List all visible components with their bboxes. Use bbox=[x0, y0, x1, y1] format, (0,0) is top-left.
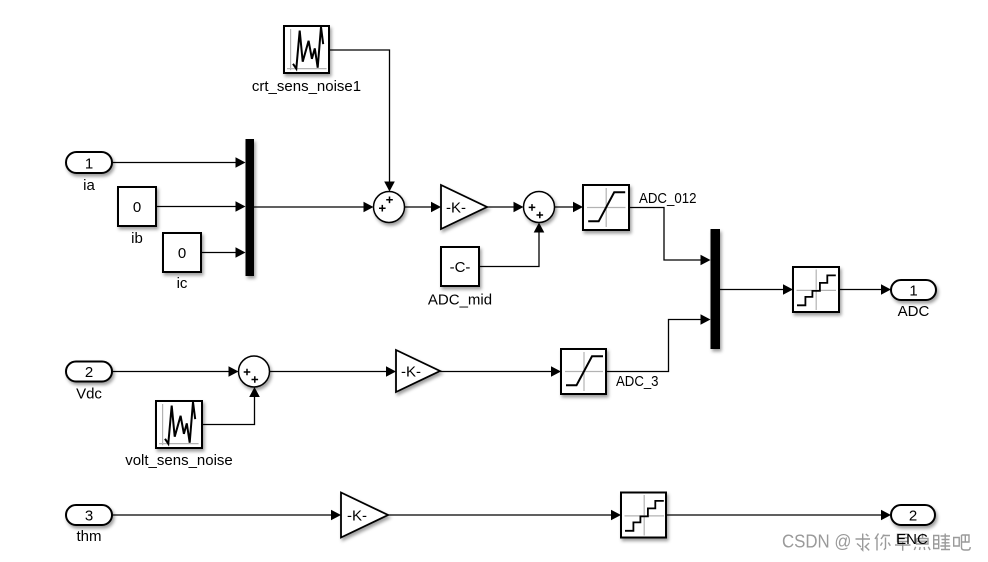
svg-text:-C-: -C- bbox=[450, 259, 471, 276]
svg-text:ADC_mid: ADC_mid bbox=[428, 292, 492, 309]
wire sum S1 to gain G1 bbox=[405, 202, 442, 213]
svg-text:ia: ia bbox=[83, 177, 95, 194]
watermark glyph qiu bbox=[856, 534, 871, 551]
svg-text:ib: ib bbox=[131, 230, 143, 247]
quantizer Q2 bbox=[621, 493, 666, 538]
svg-text:Vdc: Vdc bbox=[76, 386, 102, 403]
wire sum S2 to saturation ADC_012 bbox=[555, 202, 584, 213]
inport 2 (Vdc) bbox=[66, 362, 112, 403]
watermark glyph shui bbox=[934, 534, 951, 550]
svg-text:0: 0 bbox=[178, 245, 186, 262]
outport ENC label bbox=[896, 531, 928, 548]
sum S2 bbox=[524, 192, 555, 223]
svg-text:CSDN @: CSDN @ bbox=[782, 532, 852, 552]
wire gain G2 to saturation ADC_3 bbox=[440, 366, 561, 377]
saturation ADC_012 bbox=[583, 185, 697, 230]
wire crt_sens_noise1 to sum S1 bbox=[329, 50, 395, 192]
wire ADC_mid to sum S2 bbox=[479, 223, 544, 267]
mux M1 bbox=[246, 139, 255, 276]
svg-text:ENC: ENC bbox=[896, 531, 928, 548]
wire ib to mux M1 bbox=[156, 201, 246, 212]
quantizer Q1 bbox=[793, 267, 839, 312]
wire gain G1 to sum S2 bbox=[487, 202, 524, 213]
svg-text:ADC_3: ADC_3 bbox=[616, 373, 659, 390]
svg-text:2: 2 bbox=[909, 508, 917, 525]
svg-text:crt_sens_noise1: crt_sens_noise1 bbox=[252, 78, 361, 95]
noise source crt_sens_noise1 bbox=[252, 26, 361, 95]
sum S3 bbox=[239, 356, 270, 387]
svg-text:1: 1 bbox=[85, 156, 93, 173]
sum S1 bbox=[374, 192, 405, 223]
wire mux M1 to sum S1 bbox=[254, 202, 374, 213]
inport 1 (ia) bbox=[66, 152, 112, 194]
wire ic to mux M1 bbox=[201, 247, 246, 258]
svg-text:thm: thm bbox=[76, 528, 101, 545]
svg-text:3: 3 bbox=[85, 508, 93, 525]
constant ib bbox=[118, 187, 156, 247]
svg-text:ADC: ADC bbox=[898, 303, 930, 320]
wire saturation ADC_012 to mux M2 bbox=[629, 208, 711, 266]
gain G3 (-K-) bbox=[341, 493, 388, 538]
wire quantizer Q2 to outport ENC bbox=[666, 510, 891, 521]
wire Vdc to sum S3 bbox=[112, 366, 239, 377]
inport 3 (thm) bbox=[66, 505, 112, 545]
svg-text:0: 0 bbox=[133, 199, 141, 216]
mux M2 bbox=[711, 229, 721, 349]
wire quantizer Q1 to outport ADC bbox=[839, 284, 891, 295]
wire thm to gain G3 bbox=[112, 510, 341, 521]
wire volt_sens_noise to sum S3 bbox=[202, 387, 260, 425]
svg-text:-K-: -K- bbox=[446, 199, 466, 216]
svg-text:ic: ic bbox=[177, 275, 188, 292]
wire gain G3 to quantizer Q2 bbox=[388, 510, 621, 521]
outport 1 (ADC) bbox=[891, 280, 936, 320]
svg-text:1: 1 bbox=[909, 283, 917, 300]
svg-text:-K-: -K- bbox=[401, 363, 421, 380]
constant ADC_mid (-C-) bbox=[428, 247, 492, 309]
wire sum S3 to gain G2 bbox=[270, 366, 397, 377]
gain G2 (-K-) bbox=[396, 350, 440, 392]
wire ia to mux M1 bbox=[112, 157, 246, 168]
watermark CSDN bbox=[782, 532, 852, 552]
watermark glyph dian bbox=[914, 534, 930, 551]
wire saturation ADC_3 to mux M2 bbox=[606, 314, 711, 371]
svg-text:volt_sens_noise: volt_sens_noise bbox=[125, 452, 233, 469]
watermark glyph ba bbox=[954, 535, 971, 550]
outport 2 (ENC) bbox=[891, 505, 935, 525]
saturation ADC_3 bbox=[561, 349, 659, 394]
gain G1 (-K-) bbox=[441, 185, 487, 229]
watermark glyph zao bbox=[895, 534, 911, 551]
svg-text:-K-: -K- bbox=[347, 507, 367, 524]
noise source volt_sens_noise bbox=[125, 401, 233, 469]
svg-text:ADC_012: ADC_012 bbox=[639, 190, 697, 207]
wire mux M2 to quantizer Q1 bbox=[720, 284, 793, 295]
svg-text:2: 2 bbox=[85, 364, 93, 381]
constant ic bbox=[163, 233, 201, 292]
watermark glyph ni bbox=[875, 534, 890, 551]
